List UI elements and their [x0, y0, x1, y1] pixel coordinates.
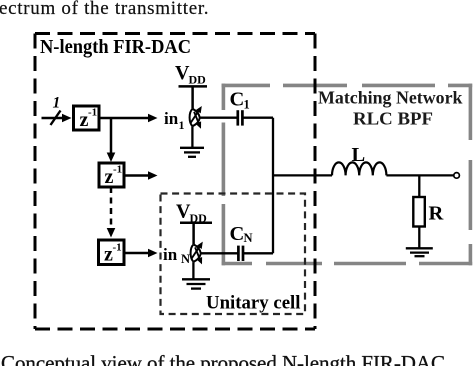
svg-text:Conceptual view of the propose: Conceptual view of the proposed N-length…: [1, 351, 445, 366]
svg-text:DD: DD: [189, 73, 207, 87]
svg-text:Matching Network: Matching Network: [318, 88, 463, 108]
svg-text:in: in: [163, 245, 178, 264]
svg-text:R: R: [429, 203, 444, 225]
svg-text:1: 1: [244, 98, 250, 112]
svg-text:-1: -1: [113, 242, 122, 254]
svg-text:-1: -1: [113, 164, 122, 176]
svg-text:C: C: [230, 89, 245, 111]
svg-text:RLC BPF: RLC BPF: [353, 109, 433, 129]
svg-text:in: in: [164, 109, 179, 128]
svg-text:-1: -1: [88, 107, 97, 119]
svg-text:1: 1: [53, 95, 61, 112]
svg-text:N: N: [244, 231, 253, 245]
svg-text:ectrum of the transmitter.: ectrum of the transmitter.: [0, 0, 209, 19]
svg-text:L: L: [352, 144, 366, 166]
svg-text:N: N: [181, 252, 190, 266]
svg-text:C: C: [230, 223, 245, 245]
svg-text:N-length FIR-DAC: N-length FIR-DAC: [40, 37, 191, 58]
svg-text:Unitary cell: Unitary cell: [206, 293, 301, 314]
svg-text:1: 1: [179, 118, 185, 132]
